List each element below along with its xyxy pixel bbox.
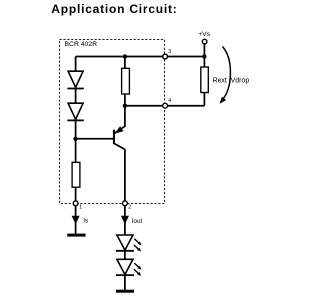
svg-text:Is: Is <box>83 218 88 225</box>
current arrow Iout <box>121 216 143 225</box>
transistor Q1 (pnp) <box>113 126 125 149</box>
current arrow Is <box>72 216 89 225</box>
ground (left) <box>67 234 85 237</box>
resistor internal top (middle column) <box>122 68 130 94</box>
resistor Rext <box>201 67 227 93</box>
wire top rail <box>76 56 205 58</box>
node (junction) on top rail at internal resistor <box>123 54 127 58</box>
wire node 1 to ground <box>75 203 77 234</box>
node (junction) on top rail at +Vs <box>202 54 206 58</box>
svg-text:Rext: Rext <box>213 78 227 85</box>
wire left column (diode chain / resistor branch) <box>75 57 77 204</box>
diode D1 <box>67 71 83 88</box>
wire node 2 to LEDs and ground <box>124 203 126 290</box>
node (junction) at base divider <box>73 137 77 141</box>
Vdrop arc arrow <box>220 47 250 104</box>
LED D3 <box>116 235 142 252</box>
wire Rext branch <box>203 57 205 106</box>
wire base of transistor <box>76 138 114 140</box>
svg-text:+Vs: +Vs <box>198 31 211 38</box>
svg-text:4: 4 <box>168 98 171 104</box>
pin 4 node circle <box>163 98 171 108</box>
wire middle column (internal resistor) <box>124 57 126 127</box>
wire +Vs to rail <box>203 44 205 57</box>
LED D4 <box>116 259 142 276</box>
IC outline BCR 402R (dashed box) <box>60 40 165 204</box>
svg-text:1: 1 <box>79 205 82 211</box>
supply terminal +Vs <box>198 31 211 44</box>
svg-text:Application Circuit:: Application Circuit: <box>51 2 177 16</box>
pin 2 node circle <box>123 201 132 211</box>
wire row to node 4 <box>125 105 204 107</box>
resistor internal left (sense resistor) <box>72 162 80 187</box>
diode D2 <box>67 103 83 120</box>
wire collector to node 2 <box>124 149 126 203</box>
ground (right) <box>116 290 134 293</box>
pin 1 node circle <box>73 201 82 211</box>
svg-text:2: 2 <box>128 205 131 211</box>
svg-text:BCR 402R: BCR 402R <box>65 41 98 48</box>
svg-text:3: 3 <box>168 49 171 55</box>
svg-text:Iout: Iout <box>132 218 143 225</box>
pin 3 node circle <box>163 49 171 59</box>
svg-text:Vdrop: Vdrop <box>231 78 250 85</box>
node (junction) at internal resistor bottom <box>123 104 127 108</box>
